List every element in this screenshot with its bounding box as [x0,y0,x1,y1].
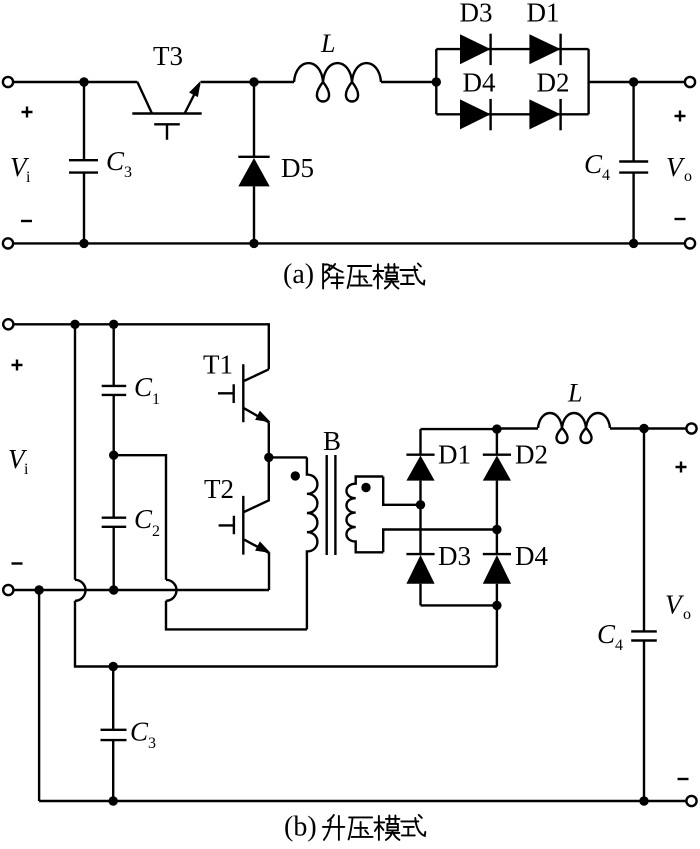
transformer B core [327,455,336,555]
wire left drop x39 (b) [38,590,40,801]
svg-text:o: o [683,606,691,623]
inductor L (b) [538,413,610,443]
svg-text:B: B [323,426,341,456]
svg-text:T3: T3 [153,41,183,71]
svg-text:D4: D4 [515,541,548,571]
label D1 [527,0,560,28]
label D3 [460,0,493,28]
label C4 (a) [584,149,610,184]
svg-text:i: i [24,461,29,478]
svg-text:4: 4 [615,637,623,654]
svg-text:T2: T2 [204,474,234,504]
svg-text:D3: D3 [460,0,493,28]
bridge left branch (b) [419,429,421,605]
caption (a) hanzi jiang [323,264,344,289]
capacitor C3 (b) [101,667,127,802]
label Vi (a) [10,152,31,186]
svg-text:D2: D2 [537,68,570,98]
label D5 [281,153,314,183]
transformer B primary winding [307,457,318,629]
transformer B secondary winding [346,477,383,553]
transformer polarity dot secondary [361,483,370,492]
label C3 (a) [106,146,132,181]
svg-text:o: o [684,168,692,185]
svg-text:C: C [597,619,616,649]
label Vi (b) [8,444,29,478]
wire minus rail (b) [14,589,269,591]
junction dots (a) [79,77,638,248]
wire L to output (b) [610,427,686,429]
label D1 (b) [438,440,471,470]
terminal output - (b) [686,796,696,806]
svg-text:3: 3 [148,735,156,752]
svg-text:D1: D1 [527,0,560,28]
diode D4 [460,99,491,130]
capacitor C2 [102,455,127,590]
diode D1 [529,34,560,65]
label T2 [204,474,234,504]
wire top rail (b) [14,324,269,369]
caption (a) [283,259,314,290]
terminal input - (a) [3,238,13,248]
terminal input + (a) [3,77,13,87]
wire secondary bottom lead [383,530,497,553]
svg-text:L: L [320,29,335,58]
wire top rail left (a) [14,81,138,83]
diode D2 [529,99,560,130]
diode D4 (b) [483,554,511,584]
svg-text:D3: D3 [438,541,471,571]
label C1 [134,372,160,408]
label T1 [203,350,233,380]
transistor T3 [132,81,201,140]
capacitor C4 (b) [631,429,657,802]
terminal output + (b) [686,423,696,433]
label D4 (b) [515,541,548,571]
svg-text:(a): (a) [283,259,314,290]
label plus input (a) [22,107,33,118]
terminal input + (b) [3,319,13,329]
label D2 [537,68,570,98]
transformer polarity dot primary [291,471,300,480]
svg-text:i: i [26,169,31,186]
inductor L (a) [294,63,381,101]
wire L to bridge (a) [381,81,436,83]
wire x75 drop with hop (b) [75,324,497,666]
label plus input (b) [12,360,23,371]
svg-text:D5: D5 [281,153,314,183]
caption (b) hanzi shi [401,815,425,836]
terminal output + (a) [685,77,695,87]
caption (a) hanzi shi [400,264,424,285]
terminal input - (b) [3,585,13,595]
svg-text:C: C [130,717,149,747]
label plus output (b) [676,462,687,473]
label T3 [153,41,183,71]
label D4 [463,68,496,98]
svg-text:1: 1 [152,391,160,408]
bridge top rail (b) [421,428,497,430]
svg-text:D4: D4 [463,68,496,98]
svg-text:2: 2 [152,523,160,540]
label B [323,426,341,456]
label Vo (a) [666,152,692,185]
label minus input (b) [12,562,23,564]
bridge box (a) [436,49,588,114]
svg-text:C: C [134,504,153,534]
svg-text:T1: T1 [203,350,233,380]
label L (b) [567,379,582,408]
svg-text:3: 3 [124,164,132,181]
caption (b) hanzi mo [374,815,399,840]
label minus input (a) [21,220,32,222]
wire T3 emitter to node (a) [201,81,294,83]
label C2 [134,504,160,540]
svg-text:V: V [665,590,685,620]
label D2 (b) [515,440,548,470]
label Vo (b) [665,590,691,624]
wire bridge top to L (b) [497,427,538,429]
bridge bottom rail (b) [421,604,497,606]
transistor T1 [218,364,271,422]
terminal output - (a) [685,238,695,248]
diode D5 [238,82,269,243]
diode D2 (b) [483,455,511,481]
bottom rail (b) [39,800,686,802]
label plus output (a) [675,111,686,122]
junction dots (b) [34,320,648,806]
caption (a) hanzi mo [373,264,398,289]
transistor T2 [219,457,271,554]
wire midpoint to x166 with hop (b) [114,455,307,629]
caption (b) hanzi sheng [323,815,345,840]
diode D1 (b) [406,455,434,481]
svg-text:C: C [584,149,603,179]
diode D3 [460,34,491,65]
svg-text:4: 4 [602,167,610,184]
label minus output (a) [675,218,686,220]
wire secondary top lead [383,477,420,505]
svg-text:D2: D2 [515,440,548,470]
svg-text:V: V [666,152,686,182]
wire T2 emitter to minus rail [268,553,270,590]
svg-text:C: C [134,372,153,402]
caption (a) hanzi ya [348,266,372,288]
svg-text:D1: D1 [438,440,471,470]
wire bridge out (a) [589,81,685,83]
diode D3 (b) [406,554,434,584]
caption (b) [284,812,317,843]
label C4 (b) [597,619,623,654]
capacitor C4 (a) [619,82,648,243]
svg-text:L: L [567,379,582,408]
svg-text:(b): (b) [284,812,317,843]
bridge right branch (b) [496,429,498,666]
label C3 (b) [130,717,156,753]
wire node to transformer primary [269,456,307,458]
label D3 (b) [438,541,471,571]
label L (a) [320,29,335,58]
caption (b) hanzi ya [349,817,373,839]
wire T1 emitter to node [268,423,270,458]
wire bottom rail (a) [14,242,685,244]
capacitor C3 (a) [69,82,98,243]
svg-text:C: C [106,146,125,176]
label minus output (b) [678,778,689,780]
capacitor C1 [102,324,127,455]
